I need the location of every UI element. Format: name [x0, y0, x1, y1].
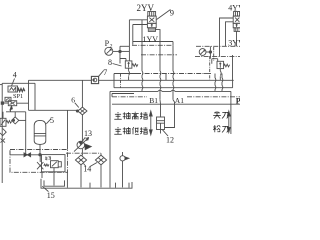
wire: feed to filter 6: [29, 109, 77, 111]
wire: return line into filter: [100, 153, 102, 155]
label 6 leader: [75, 103, 79, 108]
svg-text:15: 15: [47, 191, 55, 200]
relief valve 1: [0, 118, 6, 126]
wire: pilot dash-dot y=46.3: [120, 45, 129, 47]
enclosure: machine boundary left edge: [109, 91, 111, 187]
svg-text:14: 14: [83, 165, 91, 174]
node: accumulator junction: [39, 154, 41, 156]
svg-text:2YV: 2YV: [137, 3, 155, 13]
node: square junction: [1, 102, 3, 104]
filter 14a: [75, 155, 86, 165]
svg-text:B1: B1: [149, 96, 158, 105]
wire: right column b: [221, 74, 224, 92]
enclosure: lower-left dash-dot box: [10, 150, 68, 173]
wire: port column B1: [159, 45, 162, 100]
wire: P2 junction vertical: [119, 46, 121, 58]
pump drain triangle: [85, 144, 91, 150]
svg-text:A1: A1: [175, 96, 184, 105]
wire: relief drain: [53, 168, 55, 186]
wire: lower boundary y=104.2: [112, 103, 240, 105]
wire: pilot line y=73.5: [114, 73, 136, 75]
label 7 leader: [98, 71, 103, 77]
check valve diamond left edge: [0, 129, 6, 136]
label 9 leader: [157, 10, 171, 20]
arrow: tool clamp double arrow: [228, 114, 230, 131]
wire: branch down to relief box: [67, 110, 69, 149]
wire: main pressure line y=80.3: [29, 79, 234, 81]
label 4 leader: [12, 79, 15, 87]
label 5 leader: [46, 119, 51, 124]
wire: right valve outlet with hop: [219, 69, 222, 81]
svg-text:12: 12: [166, 135, 174, 144]
pressure gauge right: [199, 49, 206, 56]
svg-text:8: 8: [108, 58, 112, 67]
svg-text:7: 7: [103, 68, 107, 77]
svg-text:P: P: [236, 96, 240, 105]
label 主轴低挡: [114, 127, 147, 134]
wire: filter to pump: [81, 115, 83, 141]
svg-text:6: 6: [71, 95, 75, 104]
wire: A1 line to cylinder: [165, 100, 175, 128]
svg-text:1YV: 1YV: [143, 35, 159, 44]
wire: short column: [165, 74, 167, 81]
svg-text:4: 4: [13, 71, 17, 80]
label 12 leader: [163, 130, 169, 136]
wire: sub-box drain: [66, 172, 68, 187]
wire: right column a: [214, 74, 217, 92]
label 8 leader: [113, 64, 122, 67]
wire: valve 8 outlet with hop: [128, 68, 131, 80]
label 14 leaders: [84, 163, 98, 167]
label 夹刀: [213, 111, 228, 118]
accumulator 5: [34, 120, 46, 144]
pressure gauge P2: [105, 47, 113, 55]
wire: valve 9 T-line down to valve 8: [128, 20, 130, 61]
valve 2 below SP1: [5, 97, 11, 101]
enclosure: machine boundary top y=91: [110, 90, 231, 91]
pilot relief valve: [51, 161, 59, 168]
label 15 leader: [42, 186, 48, 191]
wire: accumulator drop: [39, 144, 41, 154]
svg-text:5: 5: [50, 116, 54, 125]
svg-text:3YV: 3YV: [228, 38, 240, 47]
node P2 junction: [119, 50, 121, 52]
label 松刀: [213, 125, 228, 132]
check valve 7: [91, 76, 98, 83]
wire: dash-dot boundary y=45.3: [132, 44, 172, 46]
wire: left end drop into left box: [28, 80, 30, 110]
svg-text:13: 13: [84, 129, 92, 138]
svg-text:9: 9: [170, 8, 174, 18]
wire: vertical x=114: [113, 74, 115, 88]
drain valve on return: [120, 156, 125, 161]
wire: inner boundary y=96.5 dash-dot: [112, 96, 240, 98]
pump 13: [77, 141, 85, 149]
enclosure: spindle head box: [133, 42, 173, 46]
wire: pump to filter: [81, 149, 82, 188]
shutoff X valve: [37, 155, 43, 170]
tank: main tank: [41, 179, 132, 188]
solenoid valve right clipped: [220, 12, 241, 57]
wire: pump column upper: [81, 80, 83, 107]
label 主轴高挡: [114, 112, 147, 120]
wire: stub to box: [121, 50, 129, 52]
gear cylinder 12: [157, 117, 165, 130]
reducing valve 8: [120, 59, 126, 64]
wire: right box edge: [232, 55, 234, 80]
wire: pilot dash-dot x=120.5: [120, 74, 122, 88]
filter 6: [78, 107, 87, 115]
wire: port column A1: [172, 45, 175, 100]
arrow: drain arrow: [10, 106, 12, 110]
wire: dash-dot y=54.8: [141, 55, 240, 57]
wire: port column B: [141, 45, 144, 91]
tank pipe ticks: [90, 183, 129, 188]
svg-text:2: 2: [110, 43, 113, 49]
solenoid valve 9: [129, 10, 170, 46]
spring: [44, 164, 49, 166]
relief unit sub-box 15: [42, 155, 66, 172]
label 13 leaders: [83, 137, 89, 141]
wire: valve 9 P-line: [132, 25, 134, 45]
wire: return line y=86.3: [114, 80, 233, 87]
svg-text:SP1: SP1: [13, 93, 23, 100]
check valve diamond 2: [12, 117, 19, 124]
wire: valve 9 port stubs: [129, 20, 160, 46]
pressure switch 4 SP1: [8, 86, 18, 92]
node right gauge junction: [209, 51, 211, 53]
shutoff X: [1, 139, 6, 143]
wire: inner corner at 112,93.5: [112, 94, 134, 97]
wire: dash-dot stub left: [0, 84, 2, 86]
filter 14b: [95, 155, 106, 165]
shutoff valve bowtie: [24, 153, 31, 157]
wire: drain drop x=25.7: [25, 112, 27, 155]
wire: bottom supply line: [10, 151, 42, 155]
wire: B1 line to cylinder: [159, 100, 162, 117]
wire: right valve loop lines: [220, 18, 234, 57]
wire: filter 14b to tank: [100, 165, 102, 188]
wire: clamp line: [230, 91, 232, 134]
svg-text:4YV: 4YV: [228, 4, 240, 13]
enclosure: left valve box: [2, 83, 35, 183]
wire: pilot dash-dot: [209, 56, 211, 80]
tiny part leaders: [47, 156, 51, 160]
tank: relief drain tank: [44, 180, 65, 186]
arrow: gear shift double arrow: [150, 114, 152, 133]
wire: right junction vertical: [209, 46, 211, 58]
reducing valve right: [212, 59, 218, 64]
